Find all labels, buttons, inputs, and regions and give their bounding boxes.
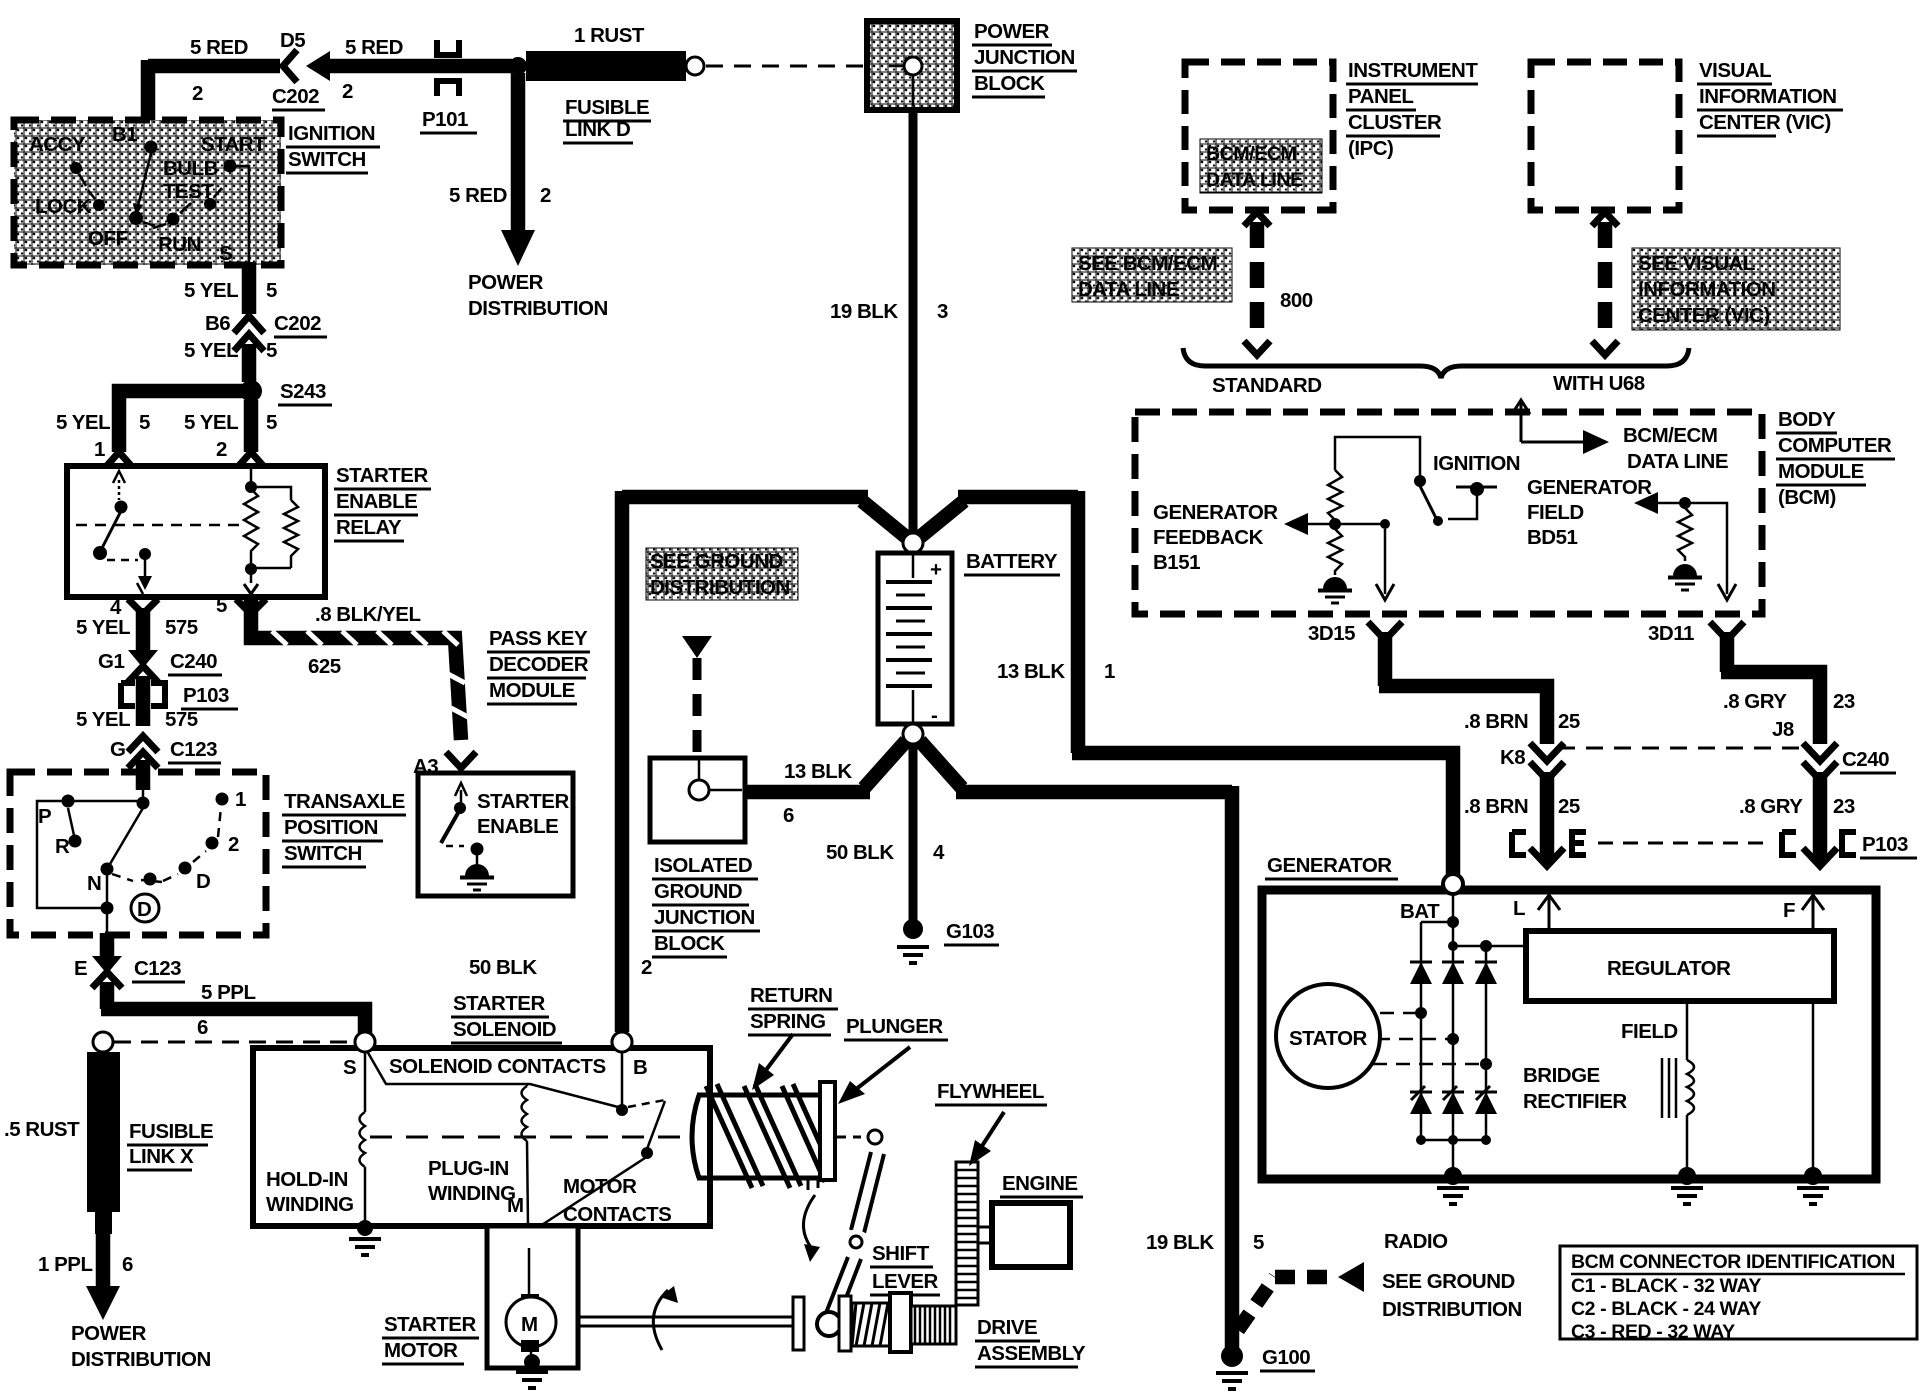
shift lever upper arm [851, 1152, 884, 1233]
svg-text:BRIDGE: BRIDGE [1523, 1064, 1600, 1087]
starter enable switch internals [441, 783, 484, 864]
dashed plunger centerline [370, 1136, 686, 1139]
svg-text:.8 GRY: .8 GRY [1739, 795, 1803, 818]
label GENERATOR FEEDBACK B151 [1153, 501, 1278, 574]
shift lever pivot hex [861, 1122, 889, 1153]
svg-text:19 BLK: 19 BLK [1146, 1231, 1214, 1254]
relay pin 4 connector chevron [128, 599, 158, 614]
solenoid contact wiring [367, 1051, 665, 1230]
svg-text:LINK X: LINK X [129, 1145, 194, 1168]
svg-text:L: L [1513, 897, 1525, 920]
svg-text:ISOLATED: ISOLATED [654, 854, 752, 877]
fusible link X element [87, 1052, 120, 1234]
svg-text:23: 23 [1833, 795, 1855, 818]
svg-text:INFORMATION: INFORMATION [1699, 85, 1837, 108]
F terminal arrow inside generator [1802, 895, 1824, 931]
svg-text:D: D [137, 898, 151, 921]
svg-text:5: 5 [1253, 1231, 1264, 1254]
svg-text:BCM CONNECTOR IDENTIFICATION: BCM CONNECTOR IDENTIFICATION [1571, 1251, 1895, 1273]
svg-text:LOCK: LOCK [35, 195, 92, 218]
wire .8 GRY from 3D11 [1721, 632, 1820, 744]
wire E to C123 [100, 933, 115, 958]
svg-text:RETURN: RETURN [750, 984, 832, 1007]
svg-text:STATOR: STATOR [1289, 1027, 1368, 1050]
label P103 right [1860, 833, 1917, 858]
svg-text:STARTER: STARTER [477, 790, 569, 813]
svg-text:E: E [74, 957, 87, 980]
BCM/ECM data line arrows inside BCM [1512, 400, 1609, 454]
svg-text:BAT: BAT [1400, 900, 1440, 923]
wire 5 YEL ignition S to C202 [242, 262, 257, 314]
terminal M node [519, 1228, 539, 1248]
BCM connector identification box [1560, 1246, 1917, 1339]
label G100 [1260, 1346, 1315, 1371]
svg-text:.8 GRY: .8 GRY [1723, 690, 1787, 713]
svg-text:DATA LINE: DATA LINE [1078, 278, 1179, 301]
svg-text:SWITCH: SWITCH [284, 842, 362, 865]
switch arm from B1 to OFF [138, 153, 151, 206]
svg-text:TRANSAXLE: TRANSAXLE [284, 790, 405, 813]
svg-text:BCM/ECM: BCM/ECM [1206, 143, 1296, 165]
wire battery positive to 13 BLK 1 [920, 491, 1453, 878]
ignition switch box [14, 120, 281, 265]
svg-text:3D15: 3D15 [1308, 622, 1355, 645]
connector label C202 [272, 85, 325, 110]
flywheel gear [956, 1162, 978, 1305]
ground G100 [1216, 1345, 1248, 1389]
svg-text:6: 6 [122, 1253, 133, 1276]
wire branch S243 to relay pin 1 [119, 391, 244, 452]
label SHIFT LEVER [870, 1242, 940, 1295]
wire 5 YEL relay pin 4 down [136, 608, 151, 650]
svg-text:MODULE: MODULE [1778, 460, 1864, 483]
label G1 C240 [98, 650, 222, 675]
svg-text:FIELD: FIELD [1527, 501, 1584, 524]
svg-text:DATA LINE: DATA LINE [1206, 169, 1303, 191]
svg-text:GROUND: GROUND [654, 880, 742, 903]
svg-text:N: N [87, 872, 101, 895]
svg-text:25: 25 [1558, 710, 1580, 733]
label FUSIBLE LINK D [563, 96, 651, 143]
svg-text:POWER: POWER [974, 20, 1050, 43]
wire 50 BLK 4 battery negative to G103 [909, 744, 918, 920]
wire .8 GRY to generator F [1813, 772, 1828, 862]
svg-text:PLUNGER: PLUNGER [846, 1015, 943, 1038]
svg-text:R: R [55, 835, 70, 858]
svg-text:C2 - BLACK - 24 WAY: C2 - BLACK - 24 WAY [1571, 1298, 1761, 1320]
label POWER DISTRIBUTION upper [468, 271, 608, 320]
relay pin 2 connector chevron [236, 452, 266, 469]
shift lever ball [817, 1312, 841, 1336]
svg-text:.8 BRN: .8 BRN [1464, 710, 1528, 733]
label .8 GRY 23 upper [1723, 690, 1855, 713]
wire between C240 and P103 [136, 676, 151, 726]
generator F terminal chevron [1803, 848, 1837, 866]
svg-text:SEE VISUAL: SEE VISUAL [1638, 252, 1755, 275]
label SEE GROUND DISTRIBUTION center [646, 548, 798, 600]
wire S243 to relay pin 2 [244, 400, 259, 452]
wire 5 RED ignition feed [148, 60, 280, 142]
node B1 [145, 141, 158, 154]
label .8 BRN 25 upper [1464, 710, 1580, 733]
label BRIDGE RECTIFIER [1523, 1064, 1627, 1113]
svg-text:5 YEL: 5 YEL [56, 411, 110, 434]
label IGNITION SWITCH [286, 122, 380, 173]
svg-text:IGNITION: IGNITION [288, 122, 375, 145]
label P103 left [181, 684, 238, 709]
relay coil [244, 469, 298, 594]
svg-text:DISTRIBUTION: DISTRIBUTION [468, 297, 608, 320]
svg-text:RECTIFIER: RECTIFIER [1523, 1090, 1627, 1113]
svg-text:PASS KEY: PASS KEY [489, 627, 588, 650]
svg-text:25: 25 [1558, 795, 1580, 818]
label C240 right [1840, 748, 1896, 773]
wire 5 RED from fusible link D [324, 59, 512, 74]
label FLYWHEEL [935, 1080, 1047, 1105]
svg-text:13 BLK: 13 BLK [784, 760, 852, 783]
svg-text:DRIVE: DRIVE [977, 1316, 1037, 1339]
svg-text:S243: S243 [280, 380, 326, 403]
svg-text:DATA LINE: DATA LINE [1627, 450, 1728, 473]
svg-text:POSITION: POSITION [284, 816, 378, 839]
label BCM/ECM DATA LINE inside IPC [1200, 139, 1322, 193]
label RETURN SPRING [748, 984, 838, 1035]
shift lever lower arm [826, 1257, 861, 1316]
svg-text:P103: P103 [183, 684, 229, 707]
label BODY COMPUTER MODULE (BCM) [1776, 408, 1895, 509]
svg-text:GENERATOR: GENERATOR [1527, 476, 1652, 499]
svg-text:SEE GROUND: SEE GROUND [1382, 1270, 1515, 1293]
svg-text:5: 5 [266, 279, 277, 302]
label HOLD-IN WINDING [266, 1168, 354, 1216]
svg-text:WITH U68: WITH U68 [1553, 372, 1645, 395]
svg-text:F: F [1783, 899, 1795, 922]
svg-text:.8 BLK/YEL: .8 BLK/YEL [315, 603, 421, 626]
svg-text:P103: P103 [1862, 833, 1908, 856]
svg-text:INFORMATION: INFORMATION [1638, 278, 1776, 301]
svg-text:S: S [343, 1056, 356, 1079]
label STARTER SOLENOID [451, 992, 562, 1043]
svg-text:SHIFT: SHIFT [872, 1242, 930, 1265]
svg-text:2: 2 [342, 80, 353, 103]
label 50 BLK 4 [826, 841, 945, 864]
visual information center box [1531, 62, 1679, 210]
svg-text:REGULATOR: REGULATOR [1607, 957, 1731, 980]
svg-text:BD51: BD51 [1527, 526, 1578, 549]
label ENGINE [1000, 1172, 1083, 1197]
svg-text:OFF: OFF [88, 227, 128, 250]
svg-text:RADIO: RADIO [1384, 1230, 1448, 1253]
svg-text:J8: J8 [1772, 718, 1794, 741]
svg-text:LEVER: LEVER [872, 1270, 939, 1293]
svg-text:S: S [219, 242, 232, 265]
connector P103 left [121, 683, 165, 706]
svg-text:.5 RUST: .5 RUST [4, 1118, 80, 1141]
svg-text:CLUSTER: CLUSTER [1348, 111, 1442, 134]
battery positive node [903, 533, 923, 553]
data line wire below IPC [1244, 212, 1270, 355]
instrument panel cluster box [1185, 62, 1333, 210]
svg-text:JUNCTION: JUNCTION [974, 46, 1075, 69]
label GENERATOR FIELD BD51 [1527, 476, 1652, 549]
svg-text:START: START [201, 133, 266, 156]
label 1 PPL 6 [38, 1253, 133, 1276]
svg-text:G100: G100 [1262, 1346, 1310, 1369]
label E C123 [74, 957, 185, 982]
wire from START to S terminal [236, 166, 249, 264]
terminal B node [612, 1032, 632, 1052]
power junction block [867, 21, 957, 110]
label SEE GROUND DISTRIBUTION right [1382, 1270, 1522, 1321]
svg-text:BODY: BODY [1778, 408, 1836, 431]
label 5 YEL 575 [76, 616, 198, 639]
node open circle after fusible link [686, 57, 704, 75]
label B6 C202 [205, 312, 327, 337]
transaxle position switch box [10, 772, 266, 935]
arrow to return spring [752, 1034, 793, 1090]
svg-text:POWER: POWER [71, 1322, 147, 1345]
svg-text:CENTER (VIC): CENTER (VIC) [1699, 111, 1831, 134]
svg-text:K8: K8 [1500, 746, 1525, 769]
battery element [878, 553, 952, 727]
contact OFF [129, 211, 143, 225]
svg-text:-: - [931, 704, 937, 727]
svg-text:2: 2 [641, 956, 652, 979]
generator L terminal chevron [1530, 848, 1564, 866]
dashed link plunger to shift lever [836, 1136, 862, 1139]
svg-text:ASSEMBLY: ASSEMBLY [977, 1342, 1086, 1365]
label 5 RED 2 [449, 184, 551, 207]
connector E C123 [92, 956, 122, 988]
svg-text:FLYWHEEL: FLYWHEEL [937, 1080, 1044, 1103]
svg-text:ENGINE: ENGINE [1002, 1172, 1078, 1195]
svg-text:WINDING: WINDING [266, 1193, 354, 1216]
svg-text:DISTRIBUTION: DISTRIBUTION [650, 576, 790, 599]
arrow to flywheel [969, 1112, 1004, 1166]
svg-text:575: 575 [165, 708, 198, 731]
svg-text:2: 2 [540, 184, 551, 207]
svg-text:SPRING: SPRING [750, 1010, 826, 1033]
svg-text:BATTERY: BATTERY [966, 550, 1058, 573]
dashed branch to see ground distribution [1238, 1262, 1364, 1330]
connector C202 B6 chevrons [234, 316, 264, 351]
label POWER JUNCTION BLOCK [972, 20, 1077, 97]
plug-in winding coil [522, 1084, 529, 1226]
svg-text:MODULE: MODULE [489, 679, 575, 702]
label BATTERY [964, 550, 1060, 575]
svg-text:GENERATOR: GENERATOR [1267, 854, 1392, 877]
svg-text:CONTACTS: CONTACTS [563, 1203, 671, 1226]
label 5 YEL 5 above C202 [184, 279, 277, 302]
connector 3D11 chevron [1710, 622, 1744, 640]
battery negative node [903, 724, 923, 744]
wire .8 BLK/YEL relay pin 5 to pass key [251, 600, 468, 740]
svg-text:575: 575 [165, 616, 198, 639]
svg-text:G103: G103 [946, 920, 994, 943]
svg-text:5 YEL: 5 YEL [184, 279, 238, 302]
connector 3D15 chevron [1368, 622, 1402, 640]
starter enable module box [418, 773, 573, 896]
svg-text:BULB: BULB [163, 157, 218, 180]
connector label P101 [420, 108, 477, 133]
engine block [978, 1203, 1070, 1267]
svg-text:STANDARD: STANDARD [1212, 374, 1322, 397]
starter motor element [506, 1248, 556, 1370]
label GENERATOR [1265, 854, 1398, 879]
svg-text:CENTER (VIC): CENTER (VIC) [1638, 304, 1770, 327]
svg-text:SEE GROUND: SEE GROUND [650, 550, 783, 573]
ignition switch internals [29, 123, 266, 265]
wire .8 BRN to generator L [1540, 772, 1555, 862]
svg-text:5 RED: 5 RED [190, 36, 248, 59]
starter enable relay box [67, 466, 325, 597]
label PASS KEY DECODER MODULE [487, 627, 590, 704]
label TRANSAXLE POSITION SWITCH [282, 790, 406, 867]
svg-text:MOTOR: MOTOR [384, 1339, 458, 1362]
svg-text:PLUG-IN: PLUG-IN [428, 1157, 509, 1180]
wire .8 BRN from 3D15 [1379, 632, 1547, 744]
connector G C123 [128, 736, 158, 768]
label ISOLATED GROUND JUNCTION BLOCK [652, 854, 760, 957]
starter solenoid box [253, 1048, 710, 1226]
connector A3 chevron [446, 752, 476, 768]
svg-text:M: M [521, 1313, 538, 1336]
generator box [1262, 890, 1876, 1179]
svg-text:ENABLE: ENABLE [477, 815, 558, 838]
bridge rectifier rails [1416, 894, 1526, 1174]
svg-text:1 PPL: 1 PPL [38, 1253, 92, 1276]
ground below hold-in winding [349, 1239, 381, 1255]
generator ground 3 [1797, 1167, 1829, 1204]
relay pin 1 connector chevron [104, 452, 134, 469]
svg-text:50 BLK: 50 BLK [826, 841, 894, 864]
connector G1 C240 [128, 650, 158, 682]
label POWER DISTRIBUTION lower [71, 1322, 211, 1371]
svg-text:5 YEL: 5 YEL [184, 339, 238, 362]
svg-text:SOLENOID CONTACTS: SOLENOID CONTACTS [389, 1055, 606, 1078]
svg-text:BLOCK: BLOCK [974, 72, 1045, 95]
body computer module box [1135, 412, 1762, 614]
svg-text:1: 1 [235, 788, 246, 811]
svg-text:6: 6 [783, 804, 794, 827]
label G C123 [110, 738, 221, 763]
svg-text:WINDING: WINDING [428, 1182, 516, 1205]
svg-text:(BCM): (BCM) [1778, 486, 1836, 509]
dashed wire 6 [114, 1041, 354, 1044]
ignition feed in BCM [1448, 482, 1497, 519]
label S243 [278, 380, 332, 405]
svg-text:5: 5 [266, 411, 277, 434]
junction node fusible link D [509, 57, 527, 75]
svg-text:LINK D: LINK D [565, 118, 630, 141]
svg-text:2: 2 [216, 438, 227, 461]
svg-text:5 PPL: 5 PPL [201, 981, 255, 1004]
svg-text:FIELD: FIELD [1621, 1020, 1678, 1043]
brace under data lines [1183, 348, 1689, 378]
stator phase taps [1373, 1007, 1492, 1070]
svg-text:STARTER: STARTER [453, 992, 545, 1015]
svg-text:B151: B151 [1153, 551, 1200, 574]
contact START [224, 160, 237, 173]
svg-text:3D11: 3D11 [1648, 622, 1694, 645]
svg-text:INSTRUMENT: INSTRUMENT [1348, 59, 1478, 82]
label PLUG-IN WINDING [428, 1157, 516, 1205]
F line from regulator to ground [1812, 1001, 1815, 1174]
BCM connector identification text [1571, 1251, 1905, 1343]
label INSTRUMENT PANEL CLUSTER (IPC) [1346, 59, 1478, 160]
wire 5 PPL [101, 982, 365, 1036]
svg-text:3: 3 [937, 300, 948, 323]
svg-text:+: + [930, 558, 942, 581]
label VISUAL INFORMATION CENTER (VIC) [1697, 59, 1843, 136]
label .8 BRN 25 lower [1464, 795, 1580, 818]
svg-text:POWER: POWER [468, 271, 544, 294]
label 13 BLK 1 [997, 660, 1115, 683]
svg-text:B: B [633, 1056, 647, 1079]
svg-text:FUSIBLE: FUSIBLE [129, 1120, 213, 1143]
svg-text:GENERATOR: GENERATOR [1153, 501, 1278, 524]
svg-text:13 BLK: 13 BLK [997, 660, 1065, 683]
svg-text:DECODER: DECODER [489, 653, 589, 676]
svg-text:23: 23 [1833, 690, 1855, 713]
contact RUN [167, 213, 180, 226]
svg-text:STARTER: STARTER [384, 1313, 476, 1336]
svg-text:MOTOR: MOTOR [563, 1175, 637, 1198]
plunger and return spring element [692, 1082, 835, 1190]
svg-text:625: 625 [308, 655, 341, 678]
svg-text:SOLENOID: SOLENOID [453, 1018, 556, 1041]
wire 1 PPL arrow to power distribution [86, 1234, 120, 1320]
shift lever mid hex [843, 1228, 869, 1256]
labels 5 YEL 5 at relay pins [56, 411, 277, 434]
connector J8 C240 chevrons [1803, 743, 1837, 780]
svg-text:STARTER: STARTER [336, 464, 428, 487]
svg-text:P: P [38, 805, 51, 828]
connector D5 [283, 50, 330, 82]
relay internals: contact arm and pins [76, 471, 243, 594]
svg-text:C240: C240 [170, 650, 217, 673]
L terminal arrow inside generator [1538, 895, 1560, 931]
label STARTER ENABLE RELAY [334, 464, 431, 541]
label 5 YEL 575 lower [76, 708, 198, 731]
label SEE BCM/ECM DATA LINE [1072, 248, 1232, 302]
connector P101 symbols [437, 40, 459, 96]
node open circle 5 PPL [355, 1032, 375, 1052]
label SEE VISUAL INFORMATION CENTER (VIC) [1632, 248, 1840, 330]
rotation arrow at shift lever [803, 1195, 815, 1250]
label 19 BLK 5 [1146, 1231, 1264, 1254]
ground below starter motor [516, 1372, 548, 1388]
svg-text:DISTRIBUTION: DISTRIBUTION [1382, 1298, 1522, 1321]
wire 19 BLK from power junction block to battery [909, 108, 918, 534]
svg-text:B1: B1 [112, 123, 137, 146]
label M and MOTOR CONTACTS [507, 1175, 671, 1226]
node open circle fusible link X [93, 1032, 113, 1052]
svg-text:2: 2 [192, 82, 203, 105]
label PLUNGER [844, 1015, 948, 1040]
wire battery negative to G100 run [920, 741, 1232, 1348]
label BCM/ECM DATA LINE in BCM [1623, 424, 1728, 473]
label G103 [944, 920, 999, 945]
svg-text:SWITCH: SWITCH [288, 148, 366, 171]
generator ground 1 [1437, 1167, 1469, 1204]
label STARTER ENABLE inside box [477, 790, 569, 838]
svg-text:IGNITION: IGNITION [1433, 452, 1520, 475]
label 50 BLK 2 [469, 956, 652, 979]
svg-text:1 RUST: 1 RUST [574, 24, 645, 47]
hold-in winding coil [357, 1051, 373, 1236]
svg-text:M: M [507, 1194, 524, 1217]
